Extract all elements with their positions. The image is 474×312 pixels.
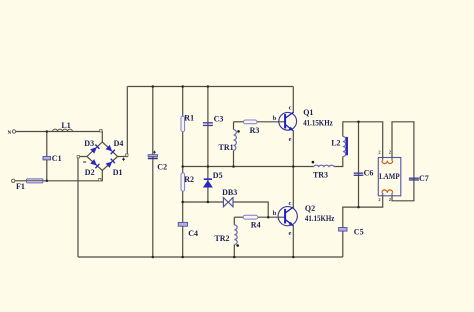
svg-text:N: N [8, 131, 12, 136]
svg-text:DB3: DB3 [222, 188, 237, 197]
svg-text:C2: C2 [157, 162, 167, 171]
svg-text:R4: R4 [251, 221, 261, 230]
svg-text:41.15KHz: 41.15KHz [303, 119, 333, 128]
svg-text:Q1: Q1 [303, 108, 313, 117]
svg-text:C1: C1 [52, 154, 62, 163]
svg-text:C6: C6 [364, 169, 374, 178]
svg-text:c: c [288, 200, 291, 207]
svg-text:L1: L1 [61, 121, 70, 130]
svg-text:D4: D4 [114, 139, 124, 148]
svg-text:Q2: Q2 [305, 204, 315, 213]
svg-text:F1: F1 [16, 182, 25, 191]
svg-text:e: e [289, 136, 292, 143]
svg-text:2: 2 [378, 149, 380, 154]
svg-text:2: 2 [389, 197, 391, 202]
svg-text:D3: D3 [84, 139, 94, 148]
svg-text:2: 2 [389, 149, 391, 154]
svg-text:41.15KHz: 41.15KHz [305, 214, 335, 223]
svg-text:R2: R2 [184, 175, 194, 184]
svg-text:D2: D2 [85, 168, 95, 177]
svg-text:R3: R3 [250, 126, 260, 135]
svg-text:TR1: TR1 [219, 143, 234, 152]
svg-text:c: c [289, 105, 292, 112]
svg-text:LAMP: LAMP [379, 172, 400, 181]
svg-text:L2: L2 [331, 138, 340, 147]
svg-text:C7: C7 [419, 174, 429, 183]
svg-text:C5: C5 [354, 227, 364, 236]
svg-text:e: e [288, 230, 291, 237]
svg-text:C4: C4 [188, 229, 198, 238]
svg-text:R1: R1 [184, 114, 194, 123]
svg-text:2: 2 [378, 197, 380, 202]
svg-text:b: b [273, 115, 277, 122]
svg-text:TR2: TR2 [214, 234, 229, 243]
svg-text:D1: D1 [113, 168, 123, 177]
svg-text:D5: D5 [213, 171, 223, 180]
svg-text:TR3: TR3 [313, 171, 328, 180]
svg-text:b: b [273, 210, 277, 217]
svg-text:C3: C3 [214, 114, 224, 123]
